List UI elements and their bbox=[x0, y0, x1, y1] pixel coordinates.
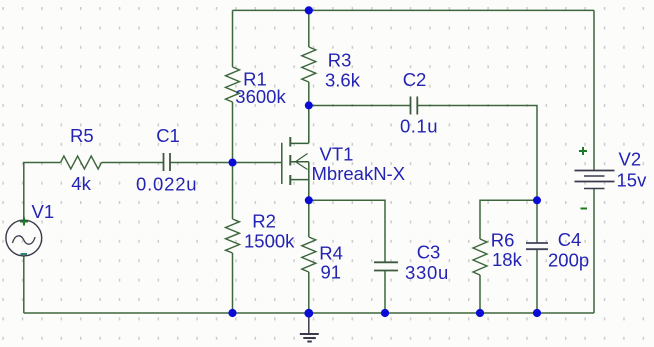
wire C3 bottom lead bbox=[384, 271, 386, 314]
capacitor C2 bbox=[411, 97, 418, 115]
resistor R3 bbox=[302, 47, 316, 82]
wire gate lead bbox=[233, 162, 282, 164]
svg-text:V1: V1 bbox=[32, 201, 55, 222]
node top rail R3 junction bbox=[305, 6, 313, 14]
battery V2 bbox=[575, 171, 615, 189]
svg-text:R4: R4 bbox=[319, 242, 343, 263]
wire drain node to C2 bbox=[309, 105, 410, 107]
wire C2 to right branch bbox=[418, 106, 538, 201]
V2 plus sign bbox=[579, 147, 587, 155]
wire V1 bottom bbox=[23, 256, 25, 313]
svg-text:R6: R6 bbox=[491, 230, 515, 251]
svg-text:MbreakN-X: MbreakN-X bbox=[312, 163, 406, 184]
svg-text:C1: C1 bbox=[156, 125, 180, 146]
wire bottom rail bbox=[24, 312, 594, 314]
node C3 bottom junction bbox=[381, 309, 389, 317]
wire R3 top lead bbox=[308, 10, 310, 47]
svg-text:18k: 18k bbox=[492, 249, 523, 270]
node source junction bbox=[305, 196, 313, 204]
svg-text:15v: 15v bbox=[617, 169, 648, 190]
svg-text:R2: R2 bbox=[252, 210, 276, 231]
svg-text:0.1u: 0.1u bbox=[400, 116, 438, 137]
wire V2 branch upper bbox=[593, 10, 595, 170]
V1 minus sign bbox=[21, 253, 28, 255]
wire R3 bottom lead bbox=[308, 82, 310, 106]
svg-text:0.022u: 0.022u bbox=[136, 173, 197, 194]
wire R4 bottom lead bbox=[308, 272, 310, 313]
svg-text:3600k: 3600k bbox=[235, 86, 286, 107]
resistor R1 bbox=[226, 67, 240, 102]
svg-text:R3: R3 bbox=[328, 49, 352, 70]
V2 minus sign bbox=[581, 208, 588, 210]
wire V1 to R5 bbox=[24, 163, 61, 221]
wire C4 top lead bbox=[536, 200, 538, 243]
capacitor C1 bbox=[164, 153, 171, 171]
wire R1 branch upper lead bbox=[232, 10, 234, 67]
node A gate junction bbox=[229, 159, 237, 167]
wire R2 bottom lead bbox=[232, 253, 234, 313]
wire source to C3 bbox=[309, 200, 385, 262]
node ground junction bbox=[304, 309, 313, 318]
svg-text:V2: V2 bbox=[619, 149, 642, 170]
svg-text:C4: C4 bbox=[558, 229, 582, 250]
svg-text:C2: C2 bbox=[403, 69, 427, 90]
svg-text:VT1: VT1 bbox=[320, 143, 354, 164]
wire R5 to C1 bbox=[102, 162, 164, 164]
node drain C2 junction bbox=[305, 101, 313, 109]
svg-text:1500k: 1500k bbox=[244, 230, 295, 251]
node R2 bottom junction bbox=[228, 309, 236, 317]
ground bbox=[300, 313, 319, 342]
resistor R5 bbox=[61, 156, 102, 169]
source V1 bbox=[6, 220, 42, 256]
wire V2 branch lower bbox=[593, 189, 595, 314]
capacitor C3 bbox=[374, 262, 398, 270]
resistor R6 bbox=[473, 239, 487, 275]
resistor R4 bbox=[302, 237, 316, 272]
wire C1 to node A bbox=[171, 162, 233, 164]
wire R1 branch lower lead bbox=[232, 102, 234, 163]
svg-text:3.6k: 3.6k bbox=[325, 70, 361, 91]
node C4 bottom junction bbox=[533, 309, 541, 317]
capacitor C4 bbox=[526, 243, 548, 249]
svg-text:91: 91 bbox=[321, 262, 342, 283]
wire R2 leads bbox=[232, 163, 234, 220]
svg-text:R5: R5 bbox=[70, 125, 94, 146]
wire R4 top lead bbox=[308, 200, 310, 237]
resistor R2 bbox=[226, 219, 240, 253]
svg-text:C3: C3 bbox=[417, 241, 441, 262]
wire C4 bottom lead bbox=[536, 250, 538, 313]
V1 plus sign bbox=[20, 218, 28, 226]
node R6 bottom junction bbox=[476, 309, 484, 317]
svg-text:200p: 200p bbox=[548, 250, 589, 271]
svg-text:330u: 330u bbox=[405, 262, 449, 283]
node B C2-R6-C4 junction bbox=[533, 196, 541, 204]
transistor VT1 bbox=[282, 106, 309, 201]
svg-text:4k: 4k bbox=[71, 173, 91, 194]
wire top rail bbox=[233, 9, 595, 11]
wire R6 bottom lead bbox=[479, 275, 481, 313]
wire node B to R6 bbox=[480, 200, 537, 239]
